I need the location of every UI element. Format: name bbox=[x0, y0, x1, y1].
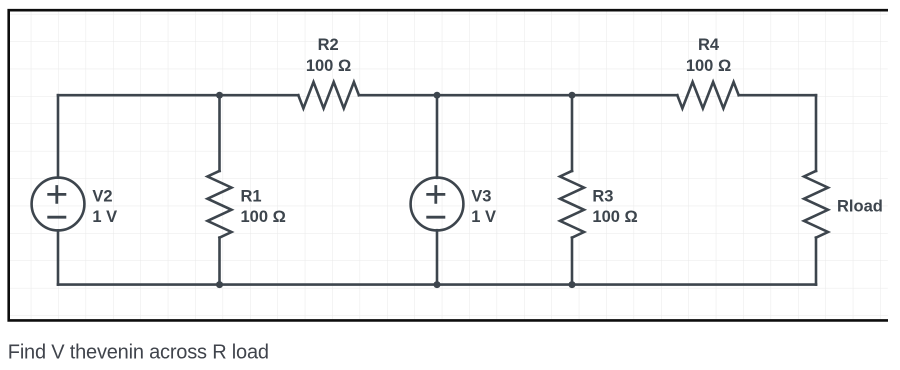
svg-text:100 Ω: 100 Ω bbox=[306, 57, 351, 75]
wire R3 branch lower bbox=[571, 238, 574, 285]
wire right branch upper (top rail to Rload) bbox=[815, 95, 818, 171]
wire bottom rail bbox=[58, 283, 816, 286]
junction node R3 top bbox=[569, 92, 576, 99]
wire V3 branch lower bbox=[436, 230, 439, 284]
V3 minus sign bbox=[426, 216, 445, 219]
svg-text:Find V thevenin across R load: Find V thevenin across R load bbox=[8, 342, 269, 364]
wire R1 branch lower bbox=[218, 238, 221, 285]
wire left branch upper (V2 to top rail) bbox=[57, 95, 60, 177]
resistor R2 bbox=[298, 82, 359, 108]
wire top rail middle: R2 to R4 bbox=[359, 94, 677, 97]
wire V3 branch upper bbox=[436, 95, 439, 178]
svg-text:V2: V2 bbox=[92, 188, 112, 206]
resistor R3 bbox=[560, 171, 584, 238]
junction node V3 bottom bbox=[434, 281, 441, 288]
svg-text:V3: V3 bbox=[471, 188, 491, 206]
svg-text:100 Ω: 100 Ω bbox=[686, 57, 731, 75]
V3 plus sign bbox=[426, 185, 445, 204]
svg-text:100 Ω: 100 Ω bbox=[592, 208, 637, 226]
junction node R1 bottom bbox=[216, 281, 223, 288]
svg-text:R3: R3 bbox=[592, 188, 613, 206]
resistor R1 bbox=[208, 171, 232, 238]
wire right branch lower (Rload to bottom rail) bbox=[815, 238, 818, 285]
svg-text:R1: R1 bbox=[241, 188, 262, 206]
wire R3 branch upper bbox=[571, 95, 574, 171]
svg-text:1 V: 1 V bbox=[92, 208, 117, 226]
svg-text:1 V: 1 V bbox=[471, 208, 496, 226]
wire R1 branch upper bbox=[218, 95, 221, 171]
junction node R3 bottom bbox=[569, 281, 576, 288]
junction node R1 top bbox=[216, 92, 223, 99]
voltage source V2 circle bbox=[32, 178, 85, 231]
junction node V3 top bbox=[434, 92, 441, 99]
V2 plus sign bbox=[47, 185, 66, 204]
svg-text:R4: R4 bbox=[698, 36, 720, 54]
svg-text:Rload: Rload bbox=[837, 198, 883, 216]
wire top rail right: R4 to right corner bbox=[739, 94, 816, 97]
svg-text:100 Ω: 100 Ω bbox=[241, 208, 286, 226]
wire left branch lower (V2 to bottom rail) bbox=[57, 230, 60, 284]
V2 minus sign bbox=[47, 216, 66, 219]
wire top rail left: V2 top corner to R2 bbox=[58, 94, 298, 97]
resistor R4 bbox=[677, 82, 738, 108]
resistor Rload bbox=[804, 171, 828, 238]
voltage source V3 circle bbox=[411, 178, 464, 231]
svg-text:R2: R2 bbox=[318, 36, 339, 54]
